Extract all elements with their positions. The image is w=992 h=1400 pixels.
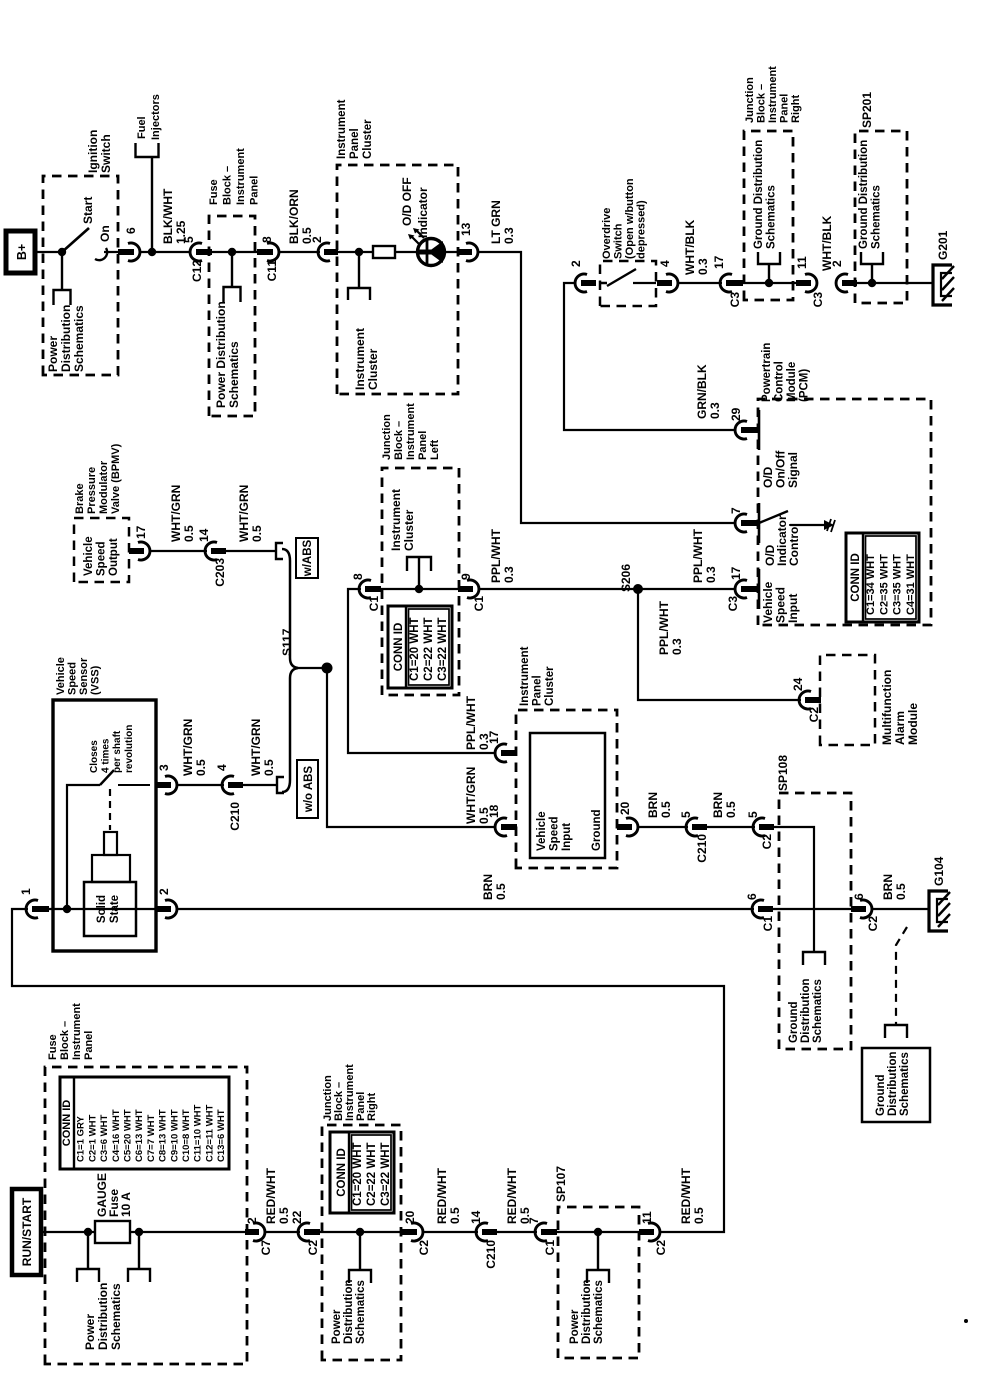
brake pressure modulator valve box: [74, 518, 129, 582]
ground distribution schematics reference box: [862, 1048, 930, 1122]
svg-text:Power: Power: [46, 336, 60, 372]
PCM CONN ID table: [846, 533, 919, 622]
svg-text:(PCM): (PCM): [799, 369, 811, 402]
connector C210 pin 4: [222, 776, 234, 794]
svg-text:BRN: BRN: [646, 792, 660, 818]
svg-text:per shaft: per shaft: [112, 730, 123, 773]
svg-text:2: 2: [310, 236, 324, 243]
fuse block instrument panel box (right): [209, 216, 255, 416]
svg-text:C1=34 WHT: C1=34 WHT: [865, 554, 877, 615]
wire to fuel injectors: [151, 158, 153, 252]
svg-text:20: 20: [403, 1210, 417, 1224]
connector pin 29 (O/D on/off signal): [735, 421, 747, 439]
svg-text:C2=22 WHT: C2=22 WHT: [366, 1142, 378, 1206]
svg-text:8: 8: [351, 573, 365, 580]
svg-text:Speed: Speed: [549, 816, 561, 851]
svg-text:17: 17: [729, 566, 743, 580]
wire pin4 to C3: [679, 282, 722, 284]
svg-text:GRN/BLK: GRN/BLK: [695, 364, 709, 419]
connector C203 pin 14: [205, 542, 217, 560]
svg-text:Fuse: Fuse: [47, 1034, 59, 1060]
wire to G104: [873, 908, 929, 910]
ignition switch box: [43, 176, 118, 375]
svg-text:Ignition: Ignition: [86, 130, 100, 173]
svg-text:2: 2: [157, 888, 171, 895]
svg-text:Power: Power: [569, 1309, 581, 1344]
VSS internal wire to switch: [67, 785, 100, 909]
svg-text:Brake: Brake: [74, 483, 86, 514]
svg-text:revolution: revolution: [124, 725, 135, 773]
wire C7 to C2-22: [266, 1231, 300, 1233]
svg-text:Instrument: Instrument: [71, 1003, 83, 1060]
connector C210 pin 5: [686, 818, 698, 836]
dashed reference from G104: [896, 927, 907, 1025]
On contact arc: [95, 248, 107, 260]
svg-text:w/o ABS: w/o ABS: [303, 766, 315, 814]
svg-text:Junction: Junction: [744, 77, 756, 123]
svg-text:(Open w/button: (Open w/button: [624, 178, 636, 259]
svg-text:Right: Right: [790, 95, 802, 123]
wire On contact to pin 6: [104, 251, 126, 253]
wire through SP108: [773, 908, 860, 910]
resistor (cluster): [373, 246, 395, 258]
svg-text:0.3: 0.3: [670, 638, 684, 655]
wire through junction block: [740, 282, 805, 284]
svg-text:Modulator: Modulator: [98, 460, 110, 514]
wire through fuse block: [205, 251, 265, 253]
junction block instrument panel left box: [382, 468, 459, 695]
VSS reed switch arm: [100, 770, 114, 785]
wire fuse to C7: [130, 1231, 253, 1233]
svg-text:Cluster: Cluster: [544, 666, 556, 706]
continuation bracket (power distribution): [54, 290, 71, 305]
svg-text:WHT/GRN: WHT/GRN: [169, 485, 183, 542]
continuation bracket: [803, 952, 825, 965]
ground G104: [929, 891, 948, 931]
svg-text:C13=6 WHT: C13=6 WHT: [216, 1109, 227, 1162]
svg-text:C2=22 WHT: C2=22 WHT: [423, 617, 435, 681]
svg-text:WHT/GRN: WHT/GRN: [181, 719, 195, 776]
svg-text:Vehicle: Vehicle: [55, 657, 67, 695]
svg-text:RED/WHT: RED/WHT: [679, 1167, 693, 1224]
svg-text:22: 22: [290, 1210, 304, 1224]
continuation bracket: [861, 252, 883, 264]
wire stub to power distribution: [231, 252, 233, 287]
connector pin 6 (ignition output): [128, 243, 140, 261]
svg-text:C2=1 WHT: C2=1 WHT: [87, 1115, 98, 1162]
svg-text:Alarm: Alarm: [893, 711, 907, 745]
connector pin 18 (cluster): [495, 818, 507, 836]
connector C2 pin 20 (junction block output): [411, 1223, 423, 1241]
svg-text:2: 2: [569, 260, 583, 267]
svg-text:C7=7 WHT: C7=7 WHT: [146, 1115, 157, 1162]
svg-text:WHT/GRN: WHT/GRN: [249, 719, 263, 776]
svg-text:State: State: [109, 895, 121, 923]
fuse block CONN ID table: [60, 1077, 229, 1169]
svg-text:Indicator: Indicator: [416, 187, 430, 238]
indicator rays: [412, 231, 424, 244]
connector C210 pin 14: [476, 1223, 488, 1241]
O/D OFF indicator bulb: [418, 239, 445, 266]
wire pin13 to PCM pin7 (LT GRN): [479, 252, 736, 523]
svg-text:S206: S206: [619, 564, 633, 592]
stub to ground distribution: [768, 264, 770, 283]
svg-text:C9=10 WHT: C9=10 WHT: [169, 1109, 180, 1162]
wire resistor to bulb: [395, 251, 418, 253]
svg-text:Instrument: Instrument: [405, 403, 417, 460]
svg-text:C2: C2: [866, 916, 880, 932]
svg-text:Power: Power: [331, 1309, 343, 1344]
svg-text:Instrument: Instrument: [389, 489, 403, 551]
wire bulb to pin 13: [445, 251, 467, 253]
svg-text:Ground: Ground: [788, 1001, 800, 1043]
connector C2 pin 5 (SP108 input): [753, 818, 765, 836]
svg-text:9: 9: [459, 573, 473, 580]
svg-text:Vehicle: Vehicle: [83, 536, 95, 576]
svg-text:Power Distribution: Power Distribution: [214, 301, 228, 408]
svg-text:Ground: Ground: [591, 809, 603, 851]
wire VSS pin2 to C1-6 (BRN): [178, 908, 754, 910]
svg-text:C1: C1: [367, 596, 381, 612]
svg-text:Power: Power: [83, 1314, 97, 1350]
connector C7 pin 2 (fuse block output): [253, 1223, 265, 1241]
svg-text:Sensor: Sensor: [78, 657, 90, 695]
connector C2 pin 22 (junction block input): [298, 1223, 310, 1241]
svg-text:Block –: Block –: [393, 421, 405, 460]
svg-text:Switch: Switch: [99, 134, 113, 173]
splice package SP108 box: [779, 793, 851, 1049]
svg-text:14: 14: [469, 1210, 483, 1224]
wire pin3 to C210: [178, 784, 224, 786]
svg-text:Speed: Speed: [67, 662, 79, 695]
splice package SP201 box: [855, 131, 907, 303]
wire C2-11 around to VSS pin 1 (RED/WHT feed): [12, 909, 724, 1232]
powertrain control module PCM box: [758, 399, 931, 625]
svg-text:0.5: 0.5: [194, 759, 208, 776]
svg-text:Junction: Junction: [381, 414, 393, 460]
svg-text:Instrument: Instrument: [353, 328, 367, 390]
svg-text:Panel: Panel: [249, 176, 261, 205]
svg-text:6: 6: [124, 227, 138, 234]
svg-text:0.5: 0.5: [262, 759, 276, 776]
svg-text:Panel: Panel: [349, 128, 361, 159]
svg-text:C3=35 WHT: C3=35 WHT: [892, 554, 904, 615]
ignition switch arm (Start/On): [62, 228, 89, 252]
svg-text:Cluster: Cluster: [362, 119, 374, 159]
connector pin 17 (cluster speed in): [495, 744, 507, 762]
w/o ABS wire end bracket: [277, 777, 284, 793]
battery B+ box: [6, 231, 35, 273]
svg-text:WHT/BLK: WHT/BLK: [683, 219, 697, 275]
svg-text:Distribution: Distribution: [581, 1279, 593, 1344]
svg-text:Ground Distribution: Ground Distribution: [858, 140, 870, 249]
fuse block instrument panel box (left): [45, 1067, 247, 1364]
svg-text:CONN ID: CONN ID: [850, 553, 862, 602]
svg-text:C2: C2: [306, 1240, 320, 1256]
connector C1 pin 6 (SP108): [752, 900, 764, 918]
internal connector bracket: [407, 557, 431, 571]
svg-text:RED/WHT: RED/WHT: [505, 1167, 519, 1224]
svg-text:SP107: SP107: [554, 1166, 568, 1202]
connector C12 pin 5: [190, 243, 202, 261]
RUN/START box: [12, 1189, 41, 1275]
label w/ABS box: [296, 538, 318, 578]
connector C3 pin 17: [720, 274, 732, 292]
svg-text:5: 5: [679, 811, 693, 818]
svg-text:Block –: Block –: [222, 166, 234, 205]
wire C2-5 into SP108 to ground distribution: [774, 827, 814, 952]
svg-text:C1=20 WHT: C1=20 WHT: [352, 1142, 364, 1206]
svg-text:Left: Left: [429, 440, 441, 461]
svg-text:Output: Output: [108, 538, 120, 576]
svg-text:Schematics: Schematics: [812, 979, 824, 1043]
svg-text:Input: Input: [786, 594, 800, 623]
junction block instrument panel right box (upper): [744, 131, 793, 300]
svg-text:RUN/START: RUN/START: [20, 1197, 34, 1266]
svg-text:Panel: Panel: [83, 1031, 95, 1060]
svg-text:WHT/GRN: WHT/GRN: [464, 767, 478, 824]
svg-text:Speed: Speed: [96, 541, 108, 576]
svg-text:Schematics: Schematics: [109, 1283, 123, 1350]
continuation bracket: [587, 1270, 609, 1283]
wire brace to S117: [296, 667, 327, 669]
continuation bracket: [349, 1270, 371, 1283]
svg-text:18: 18: [487, 804, 501, 818]
wire stub to internal connector: [358, 252, 360, 288]
instrument panel cluster box (O/D OFF): [337, 165, 458, 394]
svg-text:RED/WHT: RED/WHT: [264, 1167, 278, 1224]
svg-text:Multifunction: Multifunction: [880, 670, 894, 745]
wire C210 to w/o ABS end: [243, 784, 277, 786]
svg-text:C2: C2: [760, 834, 774, 850]
svg-text:Schematics: Schematics: [227, 341, 241, 408]
wire pin20 to C210: [639, 826, 688, 828]
svg-text:Right: Right: [366, 1093, 378, 1121]
VSS internal wire pin1-pin2: [40, 908, 162, 910]
instrument panel cluster box (speed input): [516, 710, 617, 868]
connector pin 20 (cluster ground out): [626, 818, 638, 836]
svg-text:C1: C1: [472, 596, 486, 612]
svg-text:C11=10 WHT: C11=10 WHT: [193, 1105, 204, 1162]
svg-text:Block –: Block –: [59, 1021, 71, 1060]
svg-text:B+: B+: [15, 244, 29, 260]
continuation bracket: [224, 287, 241, 302]
wire C210 to C2: [707, 826, 755, 828]
svg-text:17: 17: [487, 730, 501, 744]
connector C2 pin 24 (alarm module): [799, 691, 811, 709]
connector pin 1 (VSS input): [26, 900, 38, 918]
svg-text:Valve (BPMV): Valve (BPMV): [110, 443, 122, 514]
svg-text:C203: C203: [213, 558, 227, 587]
connector pin 4 (overdrive switch output): [666, 274, 678, 292]
svg-text:Input: Input: [561, 823, 573, 851]
connector C3 pin 17 (vehicle speed input): [735, 580, 747, 598]
multifunction alarm module box: [820, 655, 875, 745]
svg-text:C10=8 WHT: C10=8 WHT: [181, 1109, 192, 1162]
svg-text:C2: C2: [417, 1240, 431, 1256]
svg-text:Instrument: Instrument: [336, 99, 348, 159]
svg-text:Injectors: Injectors: [150, 94, 162, 140]
wire C1-9 to S206 to PCM C3-17: [480, 588, 736, 590]
svg-text:20: 20: [618, 801, 632, 815]
svg-text:C210: C210: [695, 834, 709, 863]
node: fuse block tap: [228, 248, 236, 256]
label w/o ABS box: [297, 760, 318, 818]
svg-text:Closes: Closes: [89, 740, 100, 773]
svg-text:Control: Control: [787, 523, 801, 566]
wire S117 to cluster pin 18: [327, 668, 496, 827]
chassis ground arrow: [824, 520, 834, 530]
svg-text:0.5: 0.5: [250, 525, 264, 542]
continuation bracket: [885, 1025, 907, 1038]
wire C1-8 branch (cluster pin17 to junction block): [348, 589, 496, 753]
svg-text:O/D OFF: O/D OFF: [400, 177, 414, 226]
svg-text:depressed): depressed): [636, 200, 648, 259]
wire pin6 to C12: [141, 251, 189, 253]
svg-text:0.5: 0.5: [724, 801, 738, 818]
svg-text:14: 14: [197, 528, 211, 542]
connector pin 2 (cluster input): [318, 243, 330, 261]
continuation bracket: [758, 252, 780, 264]
svg-text:SP201: SP201: [860, 92, 874, 128]
svg-text:BRN: BRN: [711, 792, 725, 818]
node: ignition pivot junction: [58, 248, 66, 256]
svg-text:C8=13 WHT: C8=13 WHT: [158, 1109, 169, 1162]
svg-text:(VSS): (VSS): [90, 665, 102, 695]
wire S206 branch to alarm module: [638, 589, 801, 700]
dashed actuator link: [109, 789, 111, 830]
svg-text:Panel: Panel: [779, 94, 791, 123]
svg-text:10 A: 10 A: [119, 1192, 133, 1217]
svg-text:Schematics: Schematics: [355, 1280, 367, 1344]
svg-text:Ground Distribution: Ground Distribution: [753, 140, 765, 249]
svg-text:Schematics: Schematics: [72, 305, 86, 372]
svg-text:On: On: [98, 225, 112, 242]
svg-text:C210: C210: [228, 802, 242, 831]
svg-text:0.3: 0.3: [696, 258, 710, 275]
svg-text:Module: Module: [786, 362, 798, 402]
svg-text:Distribution: Distribution: [343, 1279, 355, 1344]
svg-text:G201: G201: [936, 230, 950, 260]
wire SP201 to G201: [851, 282, 933, 284]
svg-text:0.5: 0.5: [894, 883, 908, 900]
node: cluster internal tap: [355, 248, 363, 256]
GAUGE fuse: [95, 1221, 130, 1243]
svg-text:Control: Control: [774, 361, 786, 402]
splice S117: [322, 663, 333, 674]
svg-text:G104: G104: [932, 856, 946, 886]
svg-text:0.3: 0.3: [708, 402, 722, 419]
solid state box: [84, 882, 136, 936]
svg-text:13: 13: [459, 222, 473, 236]
connector pin 2 (VSS output): [165, 900, 177, 918]
wire stub to power distribution: [61, 252, 63, 290]
node: fuel injectors tap: [148, 248, 156, 256]
svg-text:CONN ID: CONN ID: [393, 623, 405, 672]
wire LT GRN tap ... overdrive loop: pin2 side: [564, 283, 735, 430]
svg-text:0.3: 0.3: [704, 566, 718, 583]
connector C1 pin 8: [359, 580, 371, 598]
svg-text:Powertrain: Powertrain: [761, 343, 773, 402]
svg-text:4: 4: [658, 260, 672, 267]
svg-text:6: 6: [745, 893, 759, 900]
wire to C1-7: [497, 1231, 537, 1233]
cluster inner box vehicle speed input/ground: [530, 733, 605, 858]
svg-text:LT GRN: LT GRN: [489, 200, 503, 244]
svg-text:2: 2: [245, 1217, 259, 1224]
svg-text:11: 11: [795, 256, 809, 269]
svg-text:0.3: 0.3: [502, 566, 516, 583]
svg-text:C4=31 WHT: C4=31 WHT: [905, 554, 917, 615]
svg-text:Instrument: Instrument: [767, 66, 779, 123]
svg-text:0.3: 0.3: [502, 227, 516, 244]
continuation bracket (fuel injectors): [136, 143, 159, 157]
svg-text:Pressure: Pressure: [86, 467, 98, 514]
svg-text:0.5: 0.5: [659, 801, 673, 818]
continuation bracket: [128, 1269, 150, 1282]
w/ABS wire end bracket: [276, 543, 283, 559]
wire through junction block: [378, 588, 467, 590]
connector pin 2 (overdrive switch input): [575, 274, 587, 292]
svg-text:Schematics: Schematics: [766, 185, 778, 249]
connector pin 7 (O/D indicator control): [735, 514, 747, 532]
svg-text:Schematics: Schematics: [899, 1052, 911, 1116]
svg-text:BLK/ORN: BLK/ORN: [287, 189, 301, 244]
wire to C210: [424, 1231, 478, 1233]
connector C1 pin 9 (junction block output): [467, 580, 479, 598]
connector C3 pin 11 (junction block output): [805, 274, 817, 292]
svg-text:8: 8: [260, 236, 274, 243]
svg-text:C2: C2: [654, 1240, 668, 1256]
node: tap after fuse: [135, 1228, 143, 1236]
svg-text:Module: Module: [906, 703, 920, 745]
svg-text:Block –: Block –: [756, 84, 768, 123]
svg-text:C1: C1: [543, 1240, 557, 1256]
wire through junction block: [319, 1231, 411, 1233]
wire C11 to cluster pin 2: [280, 251, 320, 253]
vehicle speed sensor VSS box: [53, 700, 156, 951]
svg-text:C210: C210: [484, 1240, 498, 1269]
connector pin 2 (SP201 input): [836, 274, 848, 292]
stub to ground distribution: [871, 264, 873, 283]
svg-text:C1=20 WHT: C1=20 WHT: [409, 617, 421, 681]
svg-text:7: 7: [729, 507, 743, 514]
svg-text:11: 11: [640, 1211, 654, 1224]
svg-text:C11: C11: [265, 260, 279, 282]
svg-text:5: 5: [182, 236, 196, 243]
svg-text:Fuel: Fuel: [136, 116, 148, 139]
node: tap before fuse: [84, 1228, 92, 1236]
wire BPMV to C203: [151, 550, 207, 552]
svg-text:RED/WHT: RED/WHT: [435, 1167, 449, 1224]
svg-text:Cluster: Cluster: [366, 348, 380, 390]
svg-text:5: 5: [746, 811, 760, 818]
svg-text:0.5: 0.5: [692, 1207, 706, 1224]
wire inside cluster: [337, 251, 375, 253]
svg-text:Start: Start: [81, 197, 95, 224]
svg-text:17: 17: [712, 255, 726, 269]
wire RUN/START down: [41, 1231, 95, 1233]
svg-text:Instrument: Instrument: [519, 646, 531, 706]
svg-text:C1: C1: [761, 916, 775, 932]
svg-text:PPL/WHT: PPL/WHT: [657, 600, 671, 655]
internal connector bracket: [348, 288, 370, 300]
svg-text:C12: C12: [190, 260, 204, 282]
svg-text:C1=1 GRY: C1=1 GRY: [76, 1115, 87, 1162]
node: internal cluster connector tap: [415, 585, 423, 593]
svg-text:2: 2: [830, 260, 844, 267]
connector C2 pin 11 (SP107 output): [648, 1223, 660, 1241]
